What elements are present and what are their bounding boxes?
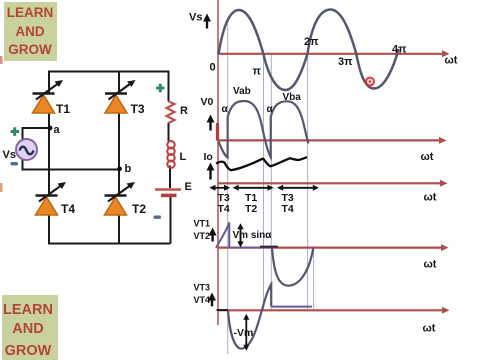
svg-text:VT1: VT1 bbox=[194, 218, 211, 228]
svg-text:Vm sinα: Vm sinα bbox=[233, 230, 273, 241]
svg-text:ωt: ωt bbox=[421, 151, 434, 163]
svg-text:AND: AND bbox=[12, 321, 43, 337]
svg-text:VT3: VT3 bbox=[194, 283, 211, 293]
svg-text:T4: T4 bbox=[61, 202, 75, 216]
svg-text:Vba: Vba bbox=[283, 92, 302, 103]
svg-text:3π: 3π bbox=[338, 56, 353, 68]
svg-text:-Vm: -Vm bbox=[234, 327, 254, 339]
svg-text:VT4: VT4 bbox=[194, 295, 211, 305]
svg-text:Vs: Vs bbox=[3, 149, 16, 161]
svg-text:T2: T2 bbox=[245, 203, 257, 215]
svg-text:R: R bbox=[180, 105, 188, 117]
svg-text:α: α bbox=[222, 104, 229, 115]
svg-text:b: b bbox=[125, 163, 132, 175]
svg-text:L: L bbox=[180, 151, 187, 163]
svg-text:GROW: GROW bbox=[8, 42, 52, 57]
svg-text:α: α bbox=[267, 104, 274, 115]
svg-text:V0: V0 bbox=[201, 96, 214, 108]
svg-text:4π: 4π bbox=[392, 44, 407, 56]
svg-text:LEARN: LEARN bbox=[7, 5, 54, 20]
svg-text:T3: T3 bbox=[131, 102, 145, 116]
svg-text:T4: T4 bbox=[218, 203, 230, 215]
svg-text:LEARN: LEARN bbox=[3, 302, 53, 318]
svg-text:0: 0 bbox=[210, 62, 216, 74]
svg-text:AND: AND bbox=[15, 24, 44, 39]
svg-text:π: π bbox=[253, 66, 262, 78]
svg-text:Vs: Vs bbox=[189, 12, 202, 24]
svg-text:Vab: Vab bbox=[233, 86, 251, 97]
svg-text:ωt: ωt bbox=[424, 192, 437, 204]
svg-text:ωt: ωt bbox=[424, 259, 437, 271]
svg-text:T1: T1 bbox=[56, 102, 70, 116]
svg-text:Io: Io bbox=[204, 151, 213, 163]
svg-text:2π: 2π bbox=[304, 36, 319, 48]
svg-text:a: a bbox=[54, 124, 61, 136]
svg-text:GROW: GROW bbox=[5, 343, 52, 359]
svg-text:ωt: ωt bbox=[445, 55, 458, 67]
svg-text:E: E bbox=[185, 181, 192, 193]
svg-text:T2: T2 bbox=[132, 202, 146, 216]
svg-text:VT2: VT2 bbox=[194, 231, 211, 241]
svg-text:T4: T4 bbox=[282, 203, 294, 215]
svg-text:ωt: ωt bbox=[423, 323, 436, 335]
